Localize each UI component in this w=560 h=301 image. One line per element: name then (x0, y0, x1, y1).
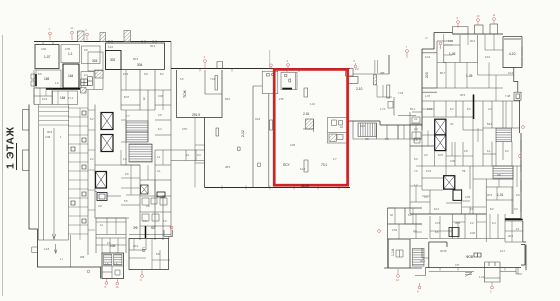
TSZH inner walls (205, 70, 222, 94)
svg-text:ТБ: ТБ (462, 169, 466, 173)
svg-text:5.6: 5.6 (180, 77, 184, 81)
ramp lower room arrow (54, 244, 57, 254)
svg-text:3: 3 (204, 55, 206, 59)
svg-text:6.4: 6.4 (492, 221, 496, 225)
svg-text:3.06: 3.06 (158, 94, 164, 98)
left protruding box 2 (23, 150, 30, 171)
ticks above wall (375, 60, 378, 73)
floor label underline (16, 143, 18, 170)
vent cluster top of red zone (281, 73, 297, 90)
top bump c (490, 24, 498, 34)
svg-text:4.05: 4.05 (290, 143, 296, 147)
svg-text:8.07: 8.07 (438, 153, 444, 157)
svg-text:4.60: 4.60 (41, 47, 47, 51)
svg-text:105: 105 (110, 244, 116, 248)
svg-text:9.1: 9.1 (186, 153, 190, 157)
ticks bottom wall (440, 268, 505, 271)
svg-text:32.6: 32.6 (360, 124, 366, 128)
elevator r1 (435, 119, 446, 135)
ramp lane walls (38, 105, 71, 268)
rooms right of cluster (398, 125, 422, 139)
svg-text:30.6: 30.6 (455, 221, 461, 225)
hatch box grid a (81, 79, 88, 86)
svg-text:2.8: 2.8 (146, 204, 150, 208)
svg-text:5.9: 5.9 (385, 137, 389, 141)
room 1-14 (389, 239, 411, 268)
elevator r2 (435, 135, 446, 151)
svg-text:40: 40 (390, 213, 393, 217)
svg-text:3: 3 (143, 97, 145, 101)
svg-text:12.5: 12.5 (426, 169, 432, 173)
svg-text:14.8: 14.8 (44, 247, 50, 251)
svg-text:80.7: 80.7 (440, 71, 446, 75)
svg-text:5.2: 5.2 (408, 213, 412, 217)
hatch box grid b (88, 77, 93, 86)
left column wall (410, 112, 422, 214)
hall bottom wall (205, 187, 351, 189)
top right room (503, 37, 522, 68)
room 303 (88, 52, 103, 71)
thick wall segment (46, 88, 80, 90)
room 164 bold (63, 64, 79, 88)
room TSZH (177, 70, 223, 118)
right wall hatches (521, 47, 522, 212)
svg-text:ПСУ: ПСУ (283, 163, 290, 167)
rooms under stairs (102, 266, 124, 279)
bottom big room (426, 242, 526, 268)
svg-text:2: 2 (86, 28, 88, 32)
svg-text:8: 8 (417, 290, 419, 294)
svg-text:1.6: 1.6 (55, 81, 59, 85)
red axis marks (49, 18, 525, 289)
svg-text:44: 44 (340, 125, 343, 129)
room 302 bold (106, 51, 122, 70)
svg-text:30.8: 30.8 (47, 130, 53, 134)
svg-text:7.48: 7.48 (505, 94, 511, 98)
strip rooms left (171, 150, 205, 161)
svg-text:4.05: 4.05 (465, 195, 471, 199)
bottom stair run R (114, 255, 122, 266)
svg-text:1-01: 1-01 (497, 193, 504, 197)
small x-box fixture (141, 185, 149, 194)
door ticks on top wall (200, 69, 299, 73)
svg-text:8.6: 8.6 (38, 72, 42, 76)
svg-text:Л/К: Л/К (497, 173, 501, 177)
svg-text:СТО: СТО (182, 127, 187, 131)
svg-text:1.21: 1.21 (479, 275, 485, 279)
svg-text:303: 303 (92, 59, 98, 63)
bottom stair run L (104, 255, 112, 266)
svg-text:38.05: 38.05 (301, 184, 309, 188)
thick left wall of room 165 (35, 74, 37, 86)
svg-text:ПП: ПП (142, 247, 146, 252)
right column horizontals (95, 90, 171, 235)
svg-text:1.10: 1.10 (310, 102, 316, 106)
step right of PP room notch (164, 230, 173, 239)
svg-text:7.16: 7.16 (210, 77, 216, 81)
rooms below wall (353, 121, 398, 139)
svg-text:1: 1 (60, 135, 62, 139)
thick wall y219 right (505, 219, 523, 221)
svg-text:165: 165 (44, 77, 50, 81)
svg-text:56.6: 56.6 (133, 57, 139, 61)
svg-text:5: 5 (105, 285, 107, 289)
wall x389 upper (388, 55, 390, 74)
svg-text:2-01: 2-01 (303, 112, 310, 116)
lower-left rooms (96, 218, 126, 253)
wc cluster left column (410, 112, 435, 146)
svg-text:5.2: 5.2 (90, 117, 94, 121)
ticks on bottom wall (222, 186, 339, 190)
svg-text:8.6: 8.6 (435, 230, 439, 234)
room 165 (36, 70, 61, 88)
rooms left row3 (34, 88, 52, 105)
svg-text:9.6: 9.6 (125, 172, 129, 176)
svg-text:291.9: 291.9 (192, 113, 200, 117)
top bump room a (453, 27, 469, 35)
svg-text:6.1: 6.1 (487, 149, 491, 153)
svg-text:1.74: 1.74 (380, 107, 386, 111)
svg-text:279: 279 (279, 97, 284, 101)
svg-text:2.08: 2.08 (45, 135, 51, 139)
svg-text:1-06: 1-06 (449, 52, 456, 56)
big room C top (422, 41, 503, 88)
room row1 b (61, 45, 80, 63)
room 1-07 (35, 45, 59, 69)
svg-text:30.5: 30.5 (487, 193, 493, 197)
elevator shaft 3 (96, 172, 107, 189)
svg-text:И: И (426, 36, 428, 40)
hall left wall (204, 118, 206, 188)
svg-text:11: 11 (493, 13, 496, 17)
svg-text:41.6: 41.6 (508, 71, 514, 75)
svg-text:2: 2 (490, 290, 492, 294)
outline top-left (422, 33, 453, 131)
svg-text:5.6: 5.6 (470, 207, 474, 211)
stair upper (126, 121, 148, 142)
svg-text:30.5: 30.5 (460, 93, 466, 97)
corridor y92-101 (422, 92, 520, 101)
svg-text:10: 10 (477, 14, 480, 18)
svg-text:6.2: 6.2 (450, 107, 454, 111)
left strip boxes (31, 74, 35, 86)
svg-text:164: 164 (68, 74, 74, 78)
svg-text:1с: 1с (71, 26, 74, 30)
svg-text:38.5: 38.5 (225, 165, 231, 169)
svg-text:477: 477 (455, 263, 460, 267)
PP inner (129, 239, 146, 251)
svg-text:2.8: 2.8 (464, 149, 468, 153)
axis line above red box corner (269, 50, 271, 68)
svg-text:7.3: 7.3 (143, 219, 147, 223)
svg-text:9: 9 (457, 16, 459, 20)
stair rw 2 (493, 166, 513, 179)
rooms mid band (422, 101, 520, 142)
column bar (387, 85, 390, 98)
svg-text:14: 14 (157, 155, 160, 159)
svg-text:7.7: 7.7 (126, 114, 130, 118)
svg-text:1-1: 1-1 (68, 52, 73, 56)
big horizontal wall y214 (410, 213, 486, 215)
svg-text:9: 9 (140, 278, 142, 282)
thick shaft wall (473, 95, 475, 120)
svg-text:к.т: к.т (60, 258, 64, 261)
room at hall top right (262, 71, 278, 93)
svg-text:30.2: 30.2 (470, 39, 476, 43)
cluster wall y74 (353, 73, 389, 75)
svg-text:1.2: 1.2 (414, 183, 418, 187)
room 1-07 door ticks (43, 42, 53, 45)
wc hatch below (81, 88, 87, 94)
svg-text:13.0: 13.0 (485, 55, 491, 59)
svg-text:3.9: 3.9 (413, 229, 417, 233)
bottom stair block (102, 253, 124, 279)
vestibule bottom (484, 262, 500, 282)
svg-text:3.3: 3.3 (197, 153, 201, 157)
svg-text:1-07: 1-07 (44, 55, 51, 59)
middle top wall (171, 68, 350, 70)
extra density left wing lower rooms (96, 218, 170, 270)
left protruding box 1 (23, 110, 30, 131)
svg-text:3.5: 3.5 (158, 113, 162, 117)
svg-text:3.3: 3.3 (514, 207, 518, 211)
big top middle room (106, 43, 165, 70)
rooms y214-242 (410, 214, 523, 242)
ramp outer walls (29, 105, 101, 279)
core left corridor (88, 90, 95, 255)
svg-text:4.1: 4.1 (157, 169, 161, 173)
svg-text:2.06: 2.06 (427, 107, 433, 111)
svg-text:9.06: 9.06 (470, 231, 476, 235)
svg-text:2.4: 2.4 (414, 127, 418, 131)
hatched tiny store (95, 71, 103, 79)
right edge steps (514, 68, 518, 93)
svg-text:6.10: 6.10 (108, 45, 114, 49)
dark bar r (453, 190, 462, 200)
svg-text:302: 302 (110, 58, 116, 62)
svg-text:12.7: 12.7 (500, 249, 506, 253)
fixture cluster big room (474, 253, 481, 257)
thick wall bottom-left block (145, 226, 147, 238)
svg-text:1.8: 1.8 (123, 157, 127, 161)
svg-text:1-14: 1-14 (391, 249, 395, 256)
svg-text:2.2: 2.2 (470, 221, 474, 225)
svg-text:30.2: 30.2 (150, 44, 156, 48)
rooms y146-166 (422, 131, 446, 191)
hall column hatched (303, 119, 314, 132)
top wall segment (453, 33, 504, 35)
svg-text:Л/К: Л/К (365, 137, 369, 141)
svg-text:2.4: 2.4 (84, 73, 88, 77)
tiny box below (388, 102, 393, 109)
svg-text:2.9: 2.9 (424, 195, 428, 199)
svg-text:1.8: 1.8 (414, 138, 418, 142)
svg-text:2.7: 2.7 (333, 157, 337, 161)
room 1-06 (444, 35, 478, 63)
dark fixture (157, 192, 165, 197)
elevator r3 (444, 176, 455, 189)
roof bump 2 (100, 33, 106, 42)
strip rooms left column (195, 118, 205, 188)
svg-text:4.07: 4.07 (435, 221, 441, 225)
block outer (384, 208, 422, 268)
svg-text:1.07: 1.07 (425, 94, 431, 98)
svg-text:6.4: 6.4 (158, 127, 162, 131)
svg-text:ФОВ: ФОВ (466, 255, 473, 259)
hatched bar (374, 75, 377, 85)
right column verticals (121, 42, 171, 241)
tiny dimension speckle texts (38, 39, 520, 279)
svg-text:1.5: 1.5 (114, 262, 118, 266)
red tiny figures (49, 13, 496, 294)
svg-text:1.5: 1.5 (105, 262, 109, 266)
left outer wall upper (34, 44, 35, 105)
wc fixtures row (142, 198, 167, 221)
long wall y121 (347, 121, 422, 125)
svg-text:14: 14 (516, 227, 519, 231)
stair rw 1 (496, 128, 512, 142)
extra density left column x34-95 (40, 88, 95, 230)
svg-text:8.2: 8.2 (160, 72, 164, 76)
bottom-left step (415, 248, 429, 276)
svg-text:4.6: 4.6 (424, 153, 428, 157)
dark wc cluster (97, 193, 107, 201)
elevator shaft 2 (101, 135, 113, 152)
sheet fold line left edge (2, 35, 4, 296)
ramp top hatch (39, 107, 69, 125)
vent room B (348, 77, 358, 84)
right edge lower (505, 100, 526, 270)
svg-text:17.1: 17.1 (68, 96, 74, 100)
roof bump 3 (124, 31, 131, 42)
svg-text:3.8: 3.8 (84, 48, 88, 52)
room PP bottom (129, 239, 169, 270)
svg-text:9.9: 9.9 (516, 193, 520, 197)
svg-text:14.9: 14.9 (425, 55, 431, 59)
extra density right wing mid (410, 128, 523, 242)
svg-text:73.1: 73.1 (321, 163, 327, 167)
svg-text:ЭФ: ЭФ (133, 226, 138, 230)
svg-text:20.9: 20.9 (133, 244, 139, 248)
svg-text:ТСЖ: ТСЖ (183, 89, 187, 98)
svg-text:16: 16 (116, 285, 119, 289)
extra density mid cluster (377, 85, 422, 239)
svg-text:2.05: 2.05 (65, 47, 71, 51)
ramp right room column (69, 108, 89, 240)
svg-text:12: 12 (396, 278, 399, 282)
svg-text:203: 203 (425, 72, 429, 78)
svg-text:16.4: 16.4 (434, 207, 440, 211)
left wing top wall (34, 41, 171, 43)
svg-text:2-10: 2-10 (356, 87, 363, 91)
tiny boxes in hall (238, 147, 261, 167)
svg-text:3.06: 3.06 (450, 159, 456, 163)
elevator shaft 1 (101, 113, 113, 130)
svg-text:7: 7 (406, 45, 408, 49)
room 184 (53, 91, 78, 105)
svg-text:ОУ: ОУ (450, 122, 454, 126)
top right room slab (503, 37, 522, 40)
svg-text:8.3: 8.3 (467, 107, 471, 111)
svg-text:1-05: 1-05 (466, 74, 473, 78)
svg-text:2.9: 2.9 (107, 241, 111, 245)
ramp column accents (71, 111, 86, 223)
window ticks top wall (109, 40, 156, 44)
bottom outer line (429, 268, 522, 275)
bathroom cluster (328, 118, 350, 144)
svg-text:8.07: 8.07 (124, 95, 130, 99)
svg-text:44.8: 44.8 (255, 117, 261, 121)
top bump b (475, 25, 484, 34)
svg-text:6.2: 6.2 (163, 219, 167, 223)
stair right of room (413, 249, 425, 267)
svg-text:1 ЭТАЖ: 1 ЭТАЖ (5, 126, 17, 169)
svg-text:8.8: 8.8 (156, 252, 160, 256)
right small box (514, 92, 521, 100)
bump above wall (217, 62, 223, 69)
svg-text:3.1: 3.1 (414, 117, 418, 121)
bottom stoop hatch (465, 273, 472, 277)
svg-text:12.5: 12.5 (42, 97, 48, 101)
svg-text:1: 1 (49, 27, 51, 31)
stair lower (129, 144, 152, 162)
rooms mid y142-166 right (446, 128, 521, 166)
rooms row2 small (81, 70, 103, 90)
svg-text:56.6: 56.6 (225, 97, 231, 101)
svg-text:4: 4 (287, 59, 289, 63)
svg-text:6: 6 (354, 59, 356, 63)
bottom-left notch (32, 247, 38, 253)
ramp centerline arrow (52, 128, 55, 240)
roof bump 1 (78, 31, 85, 42)
svg-text:2.2: 2.2 (90, 157, 94, 161)
svg-text:2.2: 2.2 (355, 67, 359, 71)
corridor walls (394, 97, 416, 116)
extra density right wing upper (422, 34, 514, 128)
room 203 tall (422, 53, 437, 88)
extra density left wing upper rooms (121, 70, 163, 197)
svg-text:2.56: 2.56 (392, 228, 398, 232)
svg-text:7.16: 7.16 (398, 91, 404, 95)
svg-text:304: 304 (137, 63, 143, 67)
svg-text:9.9: 9.9 (144, 72, 148, 76)
stair below wall (358, 123, 377, 137)
room row1 c (82, 46, 101, 64)
svg-text:3.9: 3.9 (98, 204, 102, 208)
rooms y166-214 (410, 166, 513, 214)
hall divider wall x253 (253, 86, 262, 188)
svg-text:59.6: 59.6 (487, 122, 493, 126)
svg-text:5.0: 5.0 (414, 157, 418, 161)
svg-text:12: 12 (100, 223, 103, 227)
hall columns (216, 88, 308, 172)
svg-text:4-10: 4-10 (509, 52, 516, 56)
svg-text:2-02: 2-02 (241, 130, 245, 137)
svg-text:306: 306 (80, 255, 85, 259)
svg-text:8.2: 8.2 (490, 207, 494, 211)
svg-text:ЮГ: ЮГ (151, 226, 156, 230)
svg-text:289: 289 (380, 71, 385, 75)
red highlight rectangle (274, 69, 347, 185)
hall wall x268.8 (268, 94, 270, 188)
svg-text:7.9: 7.9 (414, 169, 418, 173)
fixture in room (396, 250, 403, 257)
dark fixture top strip (449, 228, 459, 237)
svg-text:16.3: 16.3 (123, 72, 129, 76)
svg-text:2.2: 2.2 (488, 107, 492, 111)
svg-text:5.5: 5.5 (124, 199, 128, 203)
svg-text:30.05: 30.05 (440, 249, 447, 253)
